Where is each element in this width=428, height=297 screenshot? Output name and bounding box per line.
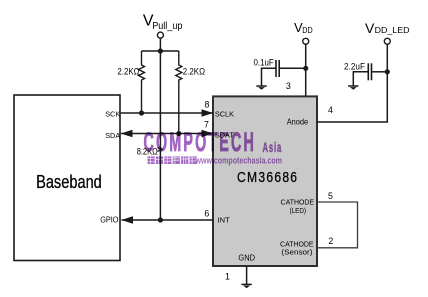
wire cathode loop pin 5 to pin 2 <box>317 202 358 248</box>
junction at VPull_up branch <box>158 48 163 53</box>
svg-text:Pull_up: Pull_up <box>152 21 183 32</box>
svg-text:0.1uF: 0.1uF <box>254 57 275 67</box>
svg-text:DD_LED: DD_LED <box>375 25 410 35</box>
ground (GND pin) <box>241 284 251 288</box>
svg-text:GND: GND <box>238 254 255 263</box>
resistor R2 2.2K (SDA pull-up) <box>176 51 182 134</box>
svg-text:4: 4 <box>328 105 333 115</box>
node VPull_up terminal <box>157 32 163 38</box>
svg-text:2.2uF: 2.2uF <box>344 62 365 72</box>
wire INT to GPIO <box>122 219 214 221</box>
arrowhead into Baseband GPIO <box>122 216 134 224</box>
svg-text:GPIO: GPIO <box>100 214 119 224</box>
svg-text:5: 5 <box>328 191 333 201</box>
svg-text:COMPOTECH: COMPOTECH <box>144 127 257 157</box>
svg-text:3: 3 <box>286 81 291 91</box>
svg-text:INT: INT <box>218 215 231 224</box>
wire SCK to SCLK <box>121 112 213 114</box>
node VDD_LED terminal <box>384 38 390 44</box>
IC U1 CM36686 body <box>213 96 317 266</box>
svg-text:2.2KΩ: 2.2KΩ <box>117 67 139 78</box>
svg-text:2: 2 <box>328 236 333 246</box>
svg-text:8: 8 <box>205 100 210 110</box>
svg-text:1: 1 <box>225 271 230 281</box>
arrowhead into SCLK pin <box>202 109 214 117</box>
wire SDA to SDAT <box>121 133 213 135</box>
svg-text:DD: DD <box>302 25 312 35</box>
svg-text:www.compotechasia.com: www.compotechasia.com <box>195 156 282 166</box>
junction R1/SCK <box>139 110 144 115</box>
svg-text:(Sensor): (Sensor) <box>281 248 312 257</box>
svg-text:Asia: Asia <box>263 140 283 155</box>
svg-text:SCLK: SCLK <box>215 110 234 119</box>
svg-text:CM36686: CM36686 <box>237 170 298 186</box>
pin label CATHODE (Sensor) <box>280 240 314 257</box>
wire pull-up branch <box>142 50 179 52</box>
wire VPull_up stem <box>159 38 161 51</box>
junction VDD_LED/C2 <box>385 69 390 74</box>
baseband block <box>14 95 120 261</box>
svg-text:V: V <box>365 20 375 36</box>
wire VDD to pin 3 <box>305 44 307 96</box>
wire GND pin 1 <box>246 266 248 284</box>
arrowhead into SDAT pin <box>202 130 214 138</box>
ground (C1) <box>256 86 266 90</box>
ground (C2) <box>348 86 358 90</box>
label VDD_LED <box>365 20 410 36</box>
resistor R1 2.2K (SCK pull-up) <box>139 51 145 113</box>
junction VDD/C1 <box>303 66 308 71</box>
svg-text:6: 6 <box>204 209 209 219</box>
svg-text:(LED): (LED) <box>290 206 306 215</box>
svg-text:Anode: Anode <box>287 117 309 126</box>
wire VPull_up to INT line <box>159 51 161 220</box>
wire VDD_LED to Anode pin 4 <box>317 44 387 122</box>
pin label CATHODE (LED) <box>281 198 315 215</box>
capacitor C1 0.1uF <box>262 60 306 86</box>
svg-text:Baseband: Baseband <box>36 172 102 192</box>
label VDD <box>294 20 313 35</box>
arrowhead into Baseband SDA <box>121 130 133 138</box>
watermark COMPOTECH Asia <box>144 127 283 166</box>
node VDD terminal <box>303 38 309 44</box>
junction R2/SDA <box>176 131 181 136</box>
svg-text:SCK: SCK <box>105 110 120 119</box>
label VPull_up <box>143 13 183 33</box>
leader arrow for 8.2KOhm label <box>158 148 163 152</box>
svg-text:2.2KΩ: 2.2KΩ <box>183 67 205 78</box>
svg-text:SDA: SDA <box>105 131 120 140</box>
capacitor C2 2.2uF <box>353 63 387 85</box>
junction pull-up/INT <box>158 217 163 222</box>
